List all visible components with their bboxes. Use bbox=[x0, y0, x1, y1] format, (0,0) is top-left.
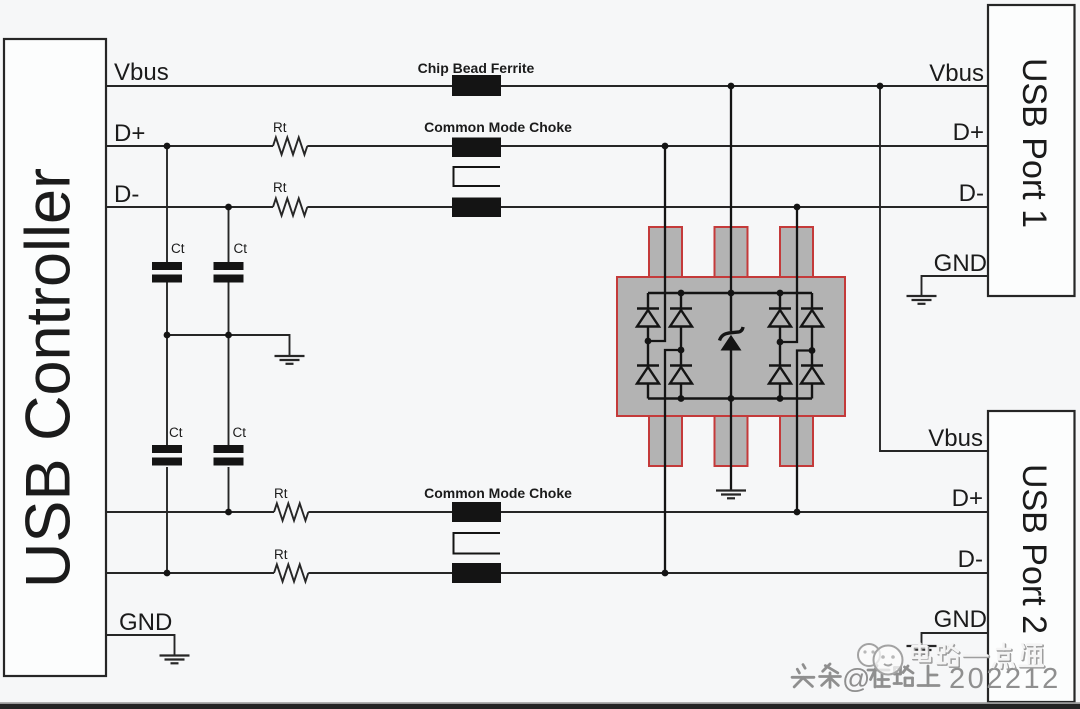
wire D+ port2 (left of Rt) bbox=[106, 511, 274, 513]
svg-text:D-: D- bbox=[958, 546, 983, 573]
ground (capacitor node) bbox=[275, 356, 305, 364]
diode outer-right upper bbox=[801, 309, 823, 327]
watermark logo (two chat faces) bbox=[858, 644, 903, 675]
capacitor Ct (upper left) bbox=[152, 262, 182, 283]
chip internal bottom rail bbox=[648, 397, 812, 399]
diode outer-left lower bbox=[637, 366, 659, 384]
svg-text:Vbus: Vbus bbox=[929, 60, 984, 87]
svg-text:D+: D+ bbox=[953, 119, 984, 146]
common mode choke (port1) winding 2 bbox=[452, 198, 501, 218]
wire D+ port1 (left of Rt) bbox=[106, 145, 273, 147]
svg-text:D-: D- bbox=[114, 181, 139, 208]
junction nodes bbox=[164, 83, 884, 577]
svg-text:Rt: Rt bbox=[273, 120, 287, 135]
diode inner-left upper bbox=[670, 309, 692, 327]
wire outer-right diode string bbox=[811, 293, 813, 399]
svg-text:USB Port 2: USB Port 2 bbox=[1015, 464, 1053, 634]
wire port1 GND bbox=[922, 276, 989, 296]
capacitor Ct (upper right) bbox=[214, 262, 244, 283]
resistor Rt (port1 D+) bbox=[273, 137, 307, 154]
zener diode (center TVS) bbox=[720, 327, 744, 351]
svg-text:D-: D- bbox=[959, 180, 984, 207]
capacitor Ct (lower left) bbox=[152, 445, 182, 466]
ground (TVS chip) bbox=[716, 491, 746, 499]
wire D- port1 tap into chip (pin 3 top) bbox=[780, 207, 797, 342]
wire port2 GND bbox=[922, 633, 989, 646]
common mode choke (port2) winding 1 bbox=[452, 502, 501, 522]
ground (controller) bbox=[160, 656, 190, 664]
svg-text:@: @ bbox=[842, 663, 870, 694]
wire inner-right diode string bbox=[779, 293, 781, 399]
wire D+ port1 (right of Rt) bbox=[307, 145, 988, 147]
wire D+ port1 tap into chip (pin 1 top) bbox=[648, 146, 665, 341]
svg-text:Ct: Ct bbox=[169, 425, 183, 440]
wire controller GND bbox=[106, 635, 175, 656]
resistor Rt (port1 D-) bbox=[273, 198, 307, 215]
common mode choke (port2) winding 2 bbox=[452, 563, 501, 583]
resistor Rt (port2 D-) bbox=[274, 564, 308, 581]
ground (port2) bbox=[907, 646, 937, 654]
svg-text:Vbus: Vbus bbox=[928, 425, 983, 452]
capacitor Ct (lower right) bbox=[214, 445, 244, 466]
wire Vbus (controller to port1) bbox=[106, 85, 988, 87]
wire cap branch left (D+ to caps to D- port2) bbox=[166, 146, 168, 573]
svg-text:Rt: Rt bbox=[273, 180, 287, 195]
TVS array package body bbox=[617, 277, 845, 416]
diode inner-left lower bbox=[670, 366, 692, 384]
wire chip pin 2 bottom to ground bbox=[730, 399, 732, 491]
wire D- port2 (right of Rt) bbox=[308, 572, 988, 574]
svg-text:Common Mode Choke: Common Mode Choke bbox=[424, 119, 572, 135]
diode outer-right lower bbox=[801, 366, 823, 384]
chip internal top rail bbox=[648, 292, 812, 294]
USB Port 1 block bbox=[988, 5, 1075, 296]
wire inner-left diode string bbox=[680, 293, 682, 399]
diode inner-right upper bbox=[769, 309, 791, 327]
diode outer-left upper bbox=[637, 309, 659, 327]
svg-text:D+: D+ bbox=[952, 485, 983, 512]
bottom dark band bbox=[0, 702, 1080, 704]
common mode choke (port1) winding 1 bbox=[452, 138, 501, 158]
svg-text:Chip Bead Ferrite: Chip Bead Ferrite bbox=[418, 60, 535, 76]
common mode choke (port1) core bbox=[454, 167, 501, 186]
common mode choke (port2) core bbox=[454, 533, 501, 554]
resistor Rt (port2 D+) bbox=[274, 503, 308, 520]
wire Vbus branch to port2 bbox=[880, 86, 988, 451]
USB Port 2 block bbox=[988, 411, 1075, 702]
wire D- port1 (left of Rt) bbox=[106, 206, 273, 208]
wire cap branch right (D- to caps to D+ port2) bbox=[228, 207, 230, 512]
svg-text:USB Controller: USB Controller bbox=[14, 168, 84, 588]
watermark text: tou tiao @zai lu shang 202212 bbox=[792, 663, 1061, 695]
svg-text:USB Port 1: USB Port 1 bbox=[1015, 58, 1053, 228]
wire Vbus tap into chip (pin 2 top) bbox=[730, 86, 732, 293]
svg-text:Rt: Rt bbox=[274, 547, 288, 562]
wire D- port1 (right of Rt) bbox=[307, 206, 988, 208]
wire chip pin 1 bottom to D- port2 bbox=[665, 350, 681, 573]
ground (port1) bbox=[907, 296, 937, 304]
watermark text: dian lu yi dian tong (white) bbox=[913, 643, 1045, 669]
svg-text:D+: D+ bbox=[114, 120, 145, 147]
svg-text:GND: GND bbox=[934, 250, 987, 277]
svg-text:Ct: Ct bbox=[233, 425, 247, 440]
svg-text:GND: GND bbox=[119, 609, 172, 636]
svg-text:Ct: Ct bbox=[234, 241, 248, 256]
wire outer-left diode string bbox=[647, 293, 649, 399]
svg-text:GND: GND bbox=[934, 606, 987, 633]
TVS array package pins bbox=[649, 227, 813, 466]
USB Controller block bbox=[4, 39, 106, 676]
wire capacitor common node to ground bbox=[167, 335, 290, 356]
svg-text:Common Mode Choke: Common Mode Choke bbox=[424, 485, 572, 501]
wire chip pin 3 bottom to D+ port2 bbox=[797, 351, 812, 513]
svg-text:Rt: Rt bbox=[274, 486, 288, 501]
wire D- port2 (left of Rt) bbox=[106, 572, 274, 574]
wire D+ port2 (right of Rt) bbox=[308, 511, 988, 513]
ferrite bead (chip bead ferrite) bbox=[452, 75, 501, 96]
zener diode stem bbox=[730, 293, 732, 399]
diode inner-right lower bbox=[769, 366, 791, 384]
svg-text:Vbus: Vbus bbox=[114, 59, 169, 86]
svg-text:Ct: Ct bbox=[171, 241, 185, 256]
